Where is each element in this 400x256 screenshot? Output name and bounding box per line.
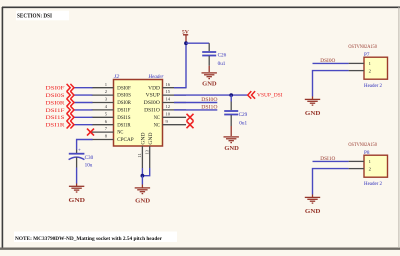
pin 10 (NC) stub (154, 111, 186, 121)
wire DSI0R to pin 3 (74, 102, 93, 104)
svg-text:15: 15 (166, 89, 171, 94)
svg-text:DSI1F: DSI1F (117, 108, 130, 114)
svg-text:DSI0R: DSI0R (46, 100, 66, 106)
svg-text:DSI0S: DSI0S (117, 93, 131, 99)
svg-text:DSI0S: DSI0S (46, 93, 65, 99)
wire 5V to C26 (186, 42, 209, 44)
wire DSI1O to header P8 pin 1 (313, 160, 349, 162)
svg-text:Header 2: Header 2 (364, 181, 382, 187)
svg-text:GND: GND (141, 132, 147, 144)
wire DSI0O from pin 14 (174, 102, 217, 104)
pin 9 (NC) stub (154, 119, 186, 129)
svg-text:DSI0O: DSI0O (144, 100, 161, 106)
header P8 pin 1 (349, 159, 372, 164)
port DSI0F (46, 84, 75, 92)
wire header P7 pin 2 to ground (313, 71, 349, 97)
wire VSUP to C29 (230, 95, 232, 101)
svg-text:DSI0F: DSI0F (117, 85, 131, 91)
wire DSI0O to header P7 pin 1 (313, 62, 349, 64)
ground under C30 (69, 184, 86, 204)
pin 11 (GND) stub (137, 132, 147, 168)
pin 16 (VDD) stub (148, 82, 186, 92)
wire 5V vertical to pin 16 (174, 42, 186, 88)
svg-text:DSI1F: DSI1F (46, 108, 65, 114)
pin 6 (DSI1R) stub (92, 119, 132, 129)
ground under J2 (135, 185, 150, 205)
junction dot 5V (184, 41, 188, 45)
svg-text:C29: C29 (239, 112, 248, 118)
svg-text:DSI0O: DSI0O (320, 58, 335, 64)
wire GND pins to junction (141, 168, 143, 176)
svg-text:0u1: 0u1 (239, 121, 247, 127)
port VSUP_DSI (248, 91, 283, 99)
svg-text:GND: GND (69, 198, 86, 204)
svg-text:GND: GND (135, 198, 150, 204)
pin 15 (VSUP) stub (146, 89, 186, 99)
svg-text:13: 13 (144, 149, 149, 154)
pin 7 (NC) stub (92, 126, 124, 136)
svg-text:C30: C30 (85, 155, 94, 161)
junction dot VSUP (229, 93, 233, 97)
svg-text:DSI1S: DSI1S (46, 115, 65, 121)
pin 1 (DSI0F) stub (92, 82, 131, 92)
svg-text:12: 12 (166, 104, 171, 109)
ground under C29 (224, 126, 239, 152)
wire DSI0F to pin 1 (74, 87, 93, 89)
pin 2 (DSI0S) stub (92, 89, 132, 99)
port DSI1S (46, 114, 75, 122)
pin 14 (DSI0O) stub (144, 97, 186, 107)
svg-text:VSUP_DSI: VSUP_DSI (257, 92, 283, 98)
no-connect X pin 9 (187, 121, 194, 128)
ground under C26 (202, 66, 217, 88)
wire pin 8 to C30 (77, 140, 93, 150)
pin 3 (DSI0R) stub (92, 97, 132, 107)
capacitor C26 (202, 43, 226, 67)
wire header P8 pin 2 to ground (313, 169, 349, 195)
svg-text:GND: GND (148, 132, 154, 144)
connector J2 body (114, 80, 163, 147)
svg-text:DSI1O: DSI1O (201, 105, 217, 111)
power port 5V (182, 29, 190, 41)
svg-text:NOTE: MC33790DW-ND_Matting soc: NOTE: MC33790DW-ND_Matting socket with 2… (15, 236, 163, 242)
svg-text:16: 16 (166, 82, 171, 87)
header P8 pin 2 (349, 166, 372, 171)
svg-text:10: 10 (166, 111, 171, 116)
svg-text:NC: NC (117, 130, 124, 136)
port DSI1R (46, 121, 75, 129)
svg-text:DSI0F: DSI0F (46, 86, 65, 92)
port DSI0R (46, 99, 75, 107)
pin 4 (DSI1F) stub (92, 104, 131, 114)
header P7 pin 1 (349, 61, 372, 66)
port DSI0S (46, 91, 75, 99)
header P7 pin 2 (349, 68, 372, 73)
svg-text:Header 2: Header 2 (364, 83, 382, 89)
svg-text:CPCAP: CPCAP (117, 137, 134, 143)
section title box (16, 11, 69, 21)
svg-text:OSTVN02A150: OSTVN02A150 (348, 44, 377, 50)
svg-text:DSI1R: DSI1R (46, 123, 66, 129)
capacitor C29 (224, 102, 247, 127)
svg-text:14: 14 (166, 97, 171, 102)
svg-text:DSI1R: DSI1R (117, 122, 131, 128)
svg-text:DSI0O: DSI0O (201, 97, 217, 103)
pin 13 (GND) stub (144, 132, 154, 168)
wire VSUP pin15 to port (174, 94, 248, 96)
svg-text:J2: J2 (114, 74, 120, 80)
svg-text:DSI0R: DSI0R (117, 100, 131, 106)
svg-text:GND: GND (202, 82, 217, 88)
svg-text:DSI1O: DSI1O (320, 156, 335, 162)
pin 5 (DSI1S) stub (92, 111, 131, 121)
svg-text:NC: NC (154, 115, 161, 121)
svg-text:VSUP: VSUP (146, 93, 160, 99)
svg-text:GND: GND (224, 146, 239, 152)
wire DSI1F to pin 4 (74, 109, 93, 111)
wire DSI0S to pin 2 (74, 94, 93, 96)
wire C30 to ground (76, 168, 78, 184)
capacitor C30 polarized (69, 148, 94, 168)
svg-text:GND: GND (305, 111, 321, 117)
ground at header P8 (305, 195, 321, 215)
svg-text:0u1: 0u1 (218, 61, 226, 67)
pin 8 (CPCAP) stub (92, 134, 134, 144)
ground at header P7 (305, 97, 321, 117)
svg-text:SECTION: DSI: SECTION: DSI (17, 12, 52, 19)
svg-text:DSI1O: DSI1O (144, 108, 160, 114)
note text (14, 232, 177, 243)
wire DSI1O from pin 12 (174, 109, 217, 111)
svg-text:NC: NC (154, 122, 161, 128)
svg-text:OSTVN02A150: OSTVN02A150 (348, 142, 377, 148)
junction dot GND (141, 174, 145, 178)
svg-text:10u: 10u (85, 162, 93, 168)
header P8 body (364, 155, 388, 177)
svg-text:C26: C26 (218, 52, 227, 58)
wire junction to ground (141, 176, 143, 185)
svg-text:DSI1S: DSI1S (117, 115, 131, 121)
pin 12 (DSI1O) stub (144, 104, 186, 114)
svg-text:VDD: VDD (148, 85, 160, 91)
wire DSI1R to pin 6 (74, 124, 93, 126)
svg-text:GND: GND (305, 209, 321, 215)
no-connect X pin 7 (87, 129, 94, 136)
svg-text:+: + (78, 148, 81, 153)
port DSI1F (46, 106, 75, 114)
svg-text:Header: Header (148, 74, 165, 80)
svg-text:11: 11 (137, 152, 142, 157)
no-connect X pin 10 (187, 114, 194, 121)
wire DSI1S to pin 5 (74, 116, 93, 118)
header P7 body (364, 57, 388, 79)
